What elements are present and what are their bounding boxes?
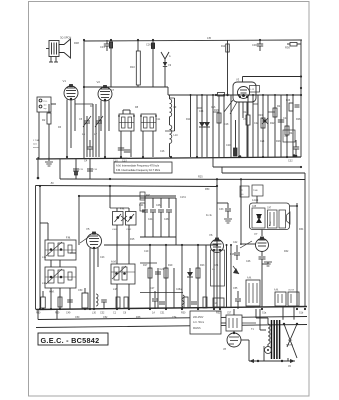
capacitor C33	[219, 203, 232, 223]
capacitor C52	[100, 300, 107, 314]
wire	[37, 157, 40, 179]
note box	[114, 162, 172, 173]
svg-text:C57: C57	[227, 313, 232, 315]
svg-text:R17: R17	[143, 264, 148, 267]
wire	[143, 131, 153, 157]
resistor R29	[55, 297, 62, 314]
svg-text:R30: R30	[36, 312, 41, 315]
label	[286, 339, 293, 347]
wire	[217, 202, 228, 204]
resistor R31	[113, 297, 120, 315]
svg-text:C20: C20	[226, 144, 231, 147]
capacitor C21	[155, 268, 165, 274]
wire	[243, 77, 302, 83]
svg-text:R12: R12	[221, 46, 226, 48]
svg-text:135: 135	[207, 37, 212, 40]
svg-text:C19: C19	[144, 250, 149, 253]
capacitor C28	[278, 117, 288, 122]
svg-text:C45: C45	[252, 206, 257, 208]
svg-text:C23: C23	[100, 256, 105, 259]
svg-text:C48a: C48a	[176, 289, 182, 291]
capacitor C10	[113, 148, 124, 163]
wire	[213, 157, 302, 168]
svg-text:C31: C31	[100, 45, 105, 49]
svg-text:C34: C34	[214, 265, 219, 267]
capacitor C48	[164, 198, 172, 237]
wire	[164, 85, 166, 87]
svg-text:C54: C54	[172, 316, 177, 319]
svg-text:R23: R23	[200, 264, 205, 267]
pickup socket	[37, 97, 51, 112]
switch S1	[246, 277, 260, 307]
fuse box	[213, 298, 224, 307]
diode X1	[163, 62, 172, 85]
ground	[45, 157, 53, 166]
svg-text:R19: R19	[168, 264, 173, 267]
svg-text:C16: C16	[160, 150, 165, 153]
label	[198, 176, 203, 179]
svg-text:V3: V3	[236, 78, 240, 82]
svg-text:R50: R50	[181, 312, 186, 315]
volume control VR1	[206, 215, 239, 286]
diode MR2	[187, 272, 193, 277]
svg-text:wound: wound	[33, 147, 40, 149]
ratio detector	[250, 203, 291, 230]
svg-text:S1a: S1a	[262, 312, 267, 315]
resistor R42	[140, 192, 151, 200]
wire	[104, 244, 217, 246]
svg-text:R16: R16	[214, 109, 219, 112]
mains panel	[190, 311, 221, 334]
capacitor C55	[233, 287, 241, 309]
aerial A1	[161, 52, 171, 62]
capacitor C42	[233, 241, 240, 260]
resistor R18	[243, 95, 250, 157]
svg-text:A 1kΩ: A 1kΩ	[252, 199, 258, 202]
label	[252, 206, 272, 210]
resistor R2	[42, 104, 51, 159]
wire	[290, 205, 299, 207]
svg-text:C44: C44	[148, 218, 153, 221]
svg-text:MAINS: MAINS	[193, 327, 201, 330]
svg-text:F.M.: F.M.	[66, 236, 71, 240]
svg-text:G.E.C. - BC5842: G.E.C. - BC5842	[41, 336, 100, 345]
svg-text:C24: C24	[260, 140, 265, 143]
wire	[83, 39, 85, 159]
wire	[256, 309, 268, 330]
resistor R21	[273, 105, 282, 117]
IF transformer IFT4	[45, 236, 76, 261]
wire	[110, 208, 129, 264]
svg-text:V2: V2	[97, 80, 101, 84]
resistor R16	[214, 109, 221, 123]
wire	[40, 223, 76, 309]
svg-text:L18: L18	[113, 288, 118, 291]
svg-text:R10: R10	[130, 65, 135, 69]
capacitor C24	[139, 196, 148, 237]
svg-text:R42: R42	[146, 195, 151, 197]
svg-text:C50: C50	[75, 316, 80, 319]
svg-text:C14: C14	[199, 110, 204, 113]
svg-text:R14: R14	[186, 118, 191, 121]
wire	[226, 244, 233, 307]
valve V5	[80, 227, 102, 249]
valve V6	[209, 233, 224, 253]
label	[33, 139, 40, 149]
svg-text:V5: V5	[86, 227, 90, 231]
valve V1	[63, 79, 79, 100]
svg-text:C16: C16	[211, 106, 216, 109]
wire	[38, 309, 307, 320]
wire rail	[79, 195, 176, 197]
IF transformer IFT6	[111, 260, 135, 285]
svg-text:F.M.: F.M.	[120, 207, 125, 211]
capacitor C49	[66, 300, 73, 314]
capacitor C27	[150, 287, 158, 315]
capacitor C50	[78, 288, 88, 310]
wire rail	[36, 182, 218, 310]
wire	[60, 178, 305, 181]
chassis bus	[36, 156, 301, 159]
resistor R36	[285, 43, 301, 50]
svg-text:C48: C48	[164, 218, 169, 221]
svg-text:R34: R34	[299, 228, 304, 231]
svg-text:TGB: TGB	[253, 190, 258, 192]
svg-text:On/Off: On/Off	[288, 290, 294, 292]
svg-text:C30: C30	[252, 43, 257, 47]
switch S3	[288, 290, 299, 307]
diode MR1	[199, 122, 205, 127]
svg-text:L10: L10	[174, 134, 179, 137]
svg-text:S1b: S1b	[299, 312, 304, 315]
wire	[90, 248, 98, 309]
resistor R17	[143, 264, 152, 278]
wire	[36, 325, 307, 328]
svg-text:R26: R26	[296, 118, 301, 121]
capacitor C26	[146, 39, 155, 87]
svg-text:R52: R52	[216, 312, 221, 315]
capacitor C16	[87, 169, 98, 171]
resistor R26	[286, 94, 300, 111]
label	[252, 199, 258, 202]
svg-text:R21: R21	[277, 105, 282, 108]
trimmer L7	[94, 116, 103, 136]
svg-text:C42: C42	[233, 241, 238, 244]
svg-text:L15: L15	[42, 256, 47, 259]
chassis bus 2	[36, 307, 307, 310]
IF transformer IFT3	[112, 207, 136, 232]
svg-text:R32: R32	[284, 250, 289, 253]
svg-text:R18: R18	[243, 111, 248, 114]
svg-text:C28: C28	[283, 117, 288, 120]
svg-text:F.M. Intermediate Frequency 10: F.M. Intermediate Frequency 10.7 Mc/s	[116, 168, 161, 172]
wire	[190, 94, 294, 157]
capacitor C51	[159, 302, 165, 315]
svg-text:R23: R23	[276, 140, 281, 143]
trimmer L6	[82, 116, 91, 136]
wire	[39, 185, 41, 310]
svg-text:skt: skt	[44, 104, 47, 107]
svg-text:A.M.: A.M.	[111, 260, 117, 264]
svg-text:1A: 1A	[152, 312, 155, 315]
resistor R23	[196, 264, 205, 278]
wire	[300, 40, 302, 157]
inductor L9	[170, 95, 177, 125]
inductor L30	[92, 294, 98, 315]
resistor R32	[123, 297, 128, 315]
wire	[221, 309, 249, 361]
wire	[304, 180, 306, 307]
wire	[240, 196, 262, 248]
wire	[197, 104, 275, 112]
svg-text:R20: R20	[258, 114, 263, 117]
resistor R33	[181, 297, 188, 315]
svg-text:C52: C52	[103, 316, 108, 319]
capacitor C20	[226, 95, 241, 158]
svg-text:R36: R36	[285, 46, 290, 50]
capacitor C4	[84, 140, 93, 163]
capacitor C46	[156, 198, 164, 237]
inductor L10	[165, 125, 178, 157]
svg-text:C46: C46	[246, 260, 251, 263]
wire	[87, 131, 99, 157]
resistor R44	[140, 203, 145, 211]
svg-text:-50: -50	[50, 182, 54, 185]
svg-text:A.M.: A.M.	[49, 290, 55, 294]
svg-text:R24: R24	[289, 132, 294, 135]
bus dots	[39, 308, 306, 310]
svg-text:C26: C26	[146, 43, 151, 47]
title box	[38, 333, 108, 345]
wire	[215, 40, 247, 157]
resistor R19	[164, 264, 173, 278]
capacitor C30	[252, 39, 263, 51]
svg-text:C33: C33	[219, 208, 224, 211]
svg-text:R50: R50	[205, 188, 210, 191]
resistor R34	[200, 297, 207, 315]
wire	[121, 110, 131, 157]
svg-text:R15: R15	[130, 238, 135, 241]
wire HT rail	[84, 37, 303, 41]
resistor R10	[130, 39, 140, 87]
junction X	[262, 118, 268, 124]
loudspeaker LS1	[46, 39, 71, 62]
svg-text:R29: R29	[55, 311, 60, 314]
svg-text:1A: 1A	[215, 302, 218, 305]
wire	[140, 245, 206, 308]
capacitor C49	[259, 252, 273, 267]
switch S4	[283, 323, 298, 358]
valve V2	[97, 80, 113, 101]
capacitor C31	[100, 40, 110, 51]
svg-text:R25: R25	[198, 176, 203, 179]
valve V7	[254, 232, 269, 252]
switch S2	[274, 289, 286, 307]
svg-text:R22: R22	[270, 122, 275, 125]
svg-text:A.M.: A.M.	[247, 277, 252, 280]
svg-text:A.C. 50c/s: A.C. 50c/s	[193, 321, 205, 324]
svg-text:C32: C32	[288, 160, 293, 163]
svg-text:C46: C46	[156, 204, 161, 207]
transformer T1	[268, 320, 280, 359]
svg-text:C18: C18	[224, 123, 229, 126]
wire	[214, 252, 220, 308]
wire	[168, 87, 301, 95]
wire	[296, 203, 298, 307]
svg-text:C17A: C17A	[180, 196, 186, 199]
label speaker	[60, 36, 79, 46]
diode MR2a	[204, 122, 210, 127]
wire	[78, 195, 80, 245]
wire	[101, 101, 109, 158]
capacitor C15	[73, 169, 84, 175]
svg-text:R38: R38	[74, 41, 79, 45]
IF transformer IFT1	[118, 114, 135, 131]
svg-text:R26: R26	[286, 100, 291, 102]
svg-text:MAINS: MAINS	[286, 344, 293, 347]
svg-text:C49: C49	[66, 311, 71, 314]
svg-text:A.C.: A.C.	[288, 339, 293, 342]
capacitor C57	[226, 313, 242, 332]
capacitor C53	[191, 302, 197, 304]
IF transformer IFT2	[140, 114, 157, 131]
wire	[140, 198, 176, 245]
svg-text:L30: L30	[92, 312, 97, 315]
wire	[84, 86, 168, 88]
svg-text:C50: C50	[78, 289, 83, 292]
resistor R20	[258, 114, 265, 128]
capacitor C44	[148, 198, 156, 237]
capacitor C13	[122, 150, 130, 163]
capacitor C32	[288, 140, 299, 163]
wire	[170, 98, 175, 131]
svg-text:C47: C47	[267, 208, 272, 210]
wire	[261, 264, 263, 307]
svg-text:P.U.: P.U.	[44, 101, 48, 103]
resistor R30	[36, 291, 45, 315]
svg-text:A.M.: A.M.	[274, 289, 279, 292]
wire	[67, 100, 96, 158]
wire	[39, 104, 56, 159]
svg-text:Fu 1k: Fu 1k	[206, 215, 213, 217]
svg-text:V1: V1	[63, 79, 67, 83]
svg-text:C55: C55	[233, 287, 238, 290]
svg-text:V7: V7	[254, 232, 258, 236]
svg-text:R28: R28	[230, 253, 235, 256]
rectifier V8	[227, 332, 241, 347]
wire	[222, 167, 305, 180]
svg-text:V6: V6	[209, 233, 213, 237]
resistor R24	[285, 126, 294, 135]
svg-text:R38: R38	[136, 316, 141, 319]
label	[199, 106, 281, 143]
wire	[109, 185, 111, 208]
voltage selector	[242, 309, 272, 354]
svg-text:C22: C22	[254, 122, 259, 125]
terminal box	[240, 186, 249, 197]
svg-text:C52: C52	[100, 311, 105, 314]
valve V3	[233, 78, 260, 103]
wire	[216, 179, 218, 308]
svg-text:3Ω SPCH: 3Ω SPCH	[60, 36, 71, 40]
mains lead	[249, 354, 295, 369]
terminal box	[252, 185, 263, 196]
wire	[117, 284, 129, 309]
IF transformer IFT5	[45, 267, 76, 294]
wire	[240, 179, 242, 245]
svg-text:C11: C11	[156, 118, 161, 121]
svg-text:A.M. Intermediate Frequency 4: A.M. Intermediate Frequency 470 kc/s	[116, 163, 160, 167]
svg-text:C27: C27	[150, 287, 155, 290]
small box	[283, 130, 295, 157]
svg-text:C51: C51	[160, 312, 165, 315]
svg-text:200-250V: 200-250V	[193, 316, 204, 319]
svg-text:L16: L16	[42, 282, 47, 285]
wire	[283, 307, 294, 320]
svg-text:1 TVA: 1 TVA	[33, 139, 39, 142]
capacitor C29	[109, 39, 112, 87]
wire	[60, 159, 90, 180]
svg-text:R2: R2	[42, 118, 46, 122]
